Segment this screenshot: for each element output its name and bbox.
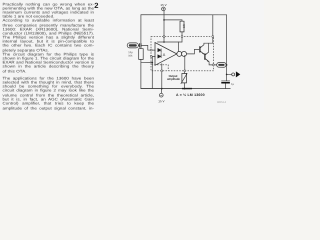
- wire frame bottom rail: [141, 88, 230, 90]
- potentiometer P1: [182, 73, 187, 82]
- transistor T1: [199, 46, 200, 52]
- svg-text:82151-2: 82151-2: [217, 101, 226, 104]
- op-amp A triangle: [155, 42, 177, 65]
- wire cap to +input: [141, 45, 155, 50]
- wire right stub below cap: [225, 83, 227, 88]
- input source oval: [127, 43, 138, 48]
- capacitor C2 oval: [217, 63, 226, 68]
- wire output tap: [227, 73, 232, 75]
- svg-text:15 V: 15 V: [158, 99, 164, 103]
- wire collector net: [204, 43, 213, 45]
- wire input coupling: [137, 44, 140, 46]
- wire branch to R1: [164, 20, 182, 21]
- wire +15V drop: [163, 11, 165, 42]
- output terminal: [232, 73, 235, 76]
- wire R1 bottom to IC pin: [181, 32, 183, 42]
- resistor R1 22k: [180, 21, 184, 32]
- svg-text:1µ: 1µ: [231, 83, 234, 86]
- dashed inner step: [152, 65, 169, 71]
- wire T2 emitter out: [209, 62, 212, 65]
- diodes D1 D2: [158, 48, 161, 58]
- wire bias horizontal: [158, 41, 183, 43]
- resistor R2 input: [139, 49, 144, 60]
- wire frame right rail: [226, 15, 228, 81]
- wire R2 bottom to ground net: [141, 62, 152, 64]
- figure number 2: [94, 1, 98, 10]
- svg-text:amplitude: amplitude: [167, 78, 180, 81]
- terminal +15V: [162, 7, 166, 11]
- wire mirror to pot pin: [184, 55, 186, 70]
- wire frame left rail: [140, 15, 142, 89]
- current mirror circles: [177, 51, 182, 56]
- IC dashed box: [151, 37, 213, 71]
- wire pin to oval cap: [214, 64, 217, 66]
- junction dots: [151, 19, 227, 89]
- transistor T2: [204, 53, 205, 59]
- wire -input: [152, 55, 155, 57]
- svg-text:A = ½ LM 13600: A = ½ LM 13600: [176, 93, 205, 97]
- wire frame top rail: [141, 14, 227, 16]
- pin circles: [150, 36, 214, 72]
- wire ground net vertical: [151, 56, 153, 88]
- wire T2 collector up: [208, 43, 210, 52]
- svg-text:22k: 22k: [183, 23, 186, 28]
- wire V+ pin drop: [212, 15, 214, 43]
- capacitor C3 to ground: [221, 80, 230, 82]
- svg-text:A: A: [163, 53, 166, 57]
- dark bar on rail: [182, 88, 192, 90]
- wire oval to rail: [225, 64, 228, 66]
- capacitor C1 bars: [139, 43, 141, 47]
- terminal -15V: [159, 93, 163, 97]
- wire bias to mirror: [178, 42, 180, 52]
- svg-text:10k: 10k: [128, 54, 133, 57]
- wire pot bottom: [184, 83, 186, 89]
- svg-text:15 V: 15 V: [160, 3, 166, 7]
- wire OTA out to T1 base: [187, 49, 199, 54]
- body text column: [3, 0, 95, 1]
- wire OTA V- to rail: [161, 64, 163, 89]
- wire -15V terminal stub: [160, 89, 162, 94]
- wire pot top: [184, 71, 186, 73]
